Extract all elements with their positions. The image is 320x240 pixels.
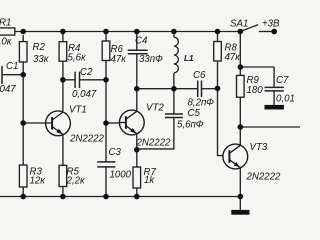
svg-text:180: 180: [247, 85, 264, 96]
svg-text:C1: C1: [6, 61, 18, 72]
svg-text:10к: 10к: [0, 37, 12, 48]
svg-text:C3: C3: [109, 147, 122, 158]
svg-text:12к: 12к: [30, 176, 46, 187]
svg-text:2,2к: 2,2к: [66, 176, 85, 187]
svg-text:0,047: 0,047: [72, 89, 97, 100]
svg-text:2N2222: 2N2222: [69, 134, 105, 145]
svg-text:2N2222: 2N2222: [246, 172, 282, 183]
svg-text:47к: 47к: [225, 52, 241, 63]
svg-text:+3В: +3В: [262, 19, 280, 30]
svg-text:C2: C2: [80, 67, 93, 78]
svg-text:C6: C6: [193, 70, 206, 81]
svg-text:33к: 33к: [33, 54, 49, 65]
svg-text:VT1: VT1: [69, 105, 87, 116]
svg-text:R1: R1: [0, 18, 11, 29]
svg-text:VT3: VT3: [250, 142, 268, 153]
svg-text:C7: C7: [276, 75, 289, 86]
svg-text:VT2: VT2: [146, 103, 164, 114]
svg-text:2N2222: 2N2222: [136, 138, 172, 149]
svg-text:R2: R2: [33, 42, 46, 53]
svg-text:C5: C5: [188, 108, 201, 119]
svg-text:47к: 47к: [111, 54, 127, 65]
svg-text:1000: 1000: [110, 170, 132, 181]
svg-text:5,6к: 5,6к: [68, 53, 86, 64]
svg-text:5,6пФ: 5,6пФ: [177, 120, 204, 131]
svg-text:0,01: 0,01: [276, 94, 295, 105]
svg-text:1k: 1k: [144, 175, 155, 186]
svg-text:SA1: SA1: [230, 19, 248, 30]
svg-text:047: 047: [0, 84, 16, 95]
svg-text:C4: C4: [135, 36, 148, 47]
svg-text:L1: L1: [184, 54, 194, 63]
svg-text:33пФ: 33пФ: [139, 54, 163, 65]
svg-text:8,2пФ: 8,2пФ: [188, 98, 215, 109]
